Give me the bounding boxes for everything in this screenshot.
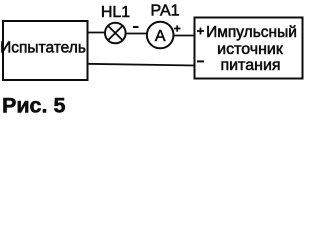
svg-text:A: A: [155, 28, 166, 45]
svg-text:источник: источник: [217, 41, 284, 58]
plus terminal label inside supply block: [197, 28, 204, 35]
ammeter PA1: [147, 22, 174, 49]
svg-text:Рис. 5: Рис. 5: [2, 94, 65, 118]
lamp HL1: [105, 23, 126, 44]
wire: HL1 to PA1: [126, 33, 147, 35]
minus sign at PA1 input: [133, 26, 139, 28]
svg-text:PA1: PA1: [150, 3, 179, 20]
wire: tester to HL1: [87, 32, 106, 34]
svg-text:Импульсный: Импульсный: [206, 24, 297, 41]
wire: PA1 to supply block: [174, 35, 196, 37]
wire: tester to supply block (bottom): [87, 64, 195, 66]
svg-text:HL1: HL1: [101, 4, 130, 21]
svg-text:Испытатель: Испытатель: [0, 40, 86, 57]
minus terminal label inside supply block: [197, 60, 204, 62]
block: Импульсный источник питания (pulse power supply): [195, 18, 303, 79]
block: Испытатель (tester): [0, 21, 87, 80]
plus sign at PA1 output: [174, 25, 181, 31]
svg-text:питания: питания: [220, 57, 280, 74]
